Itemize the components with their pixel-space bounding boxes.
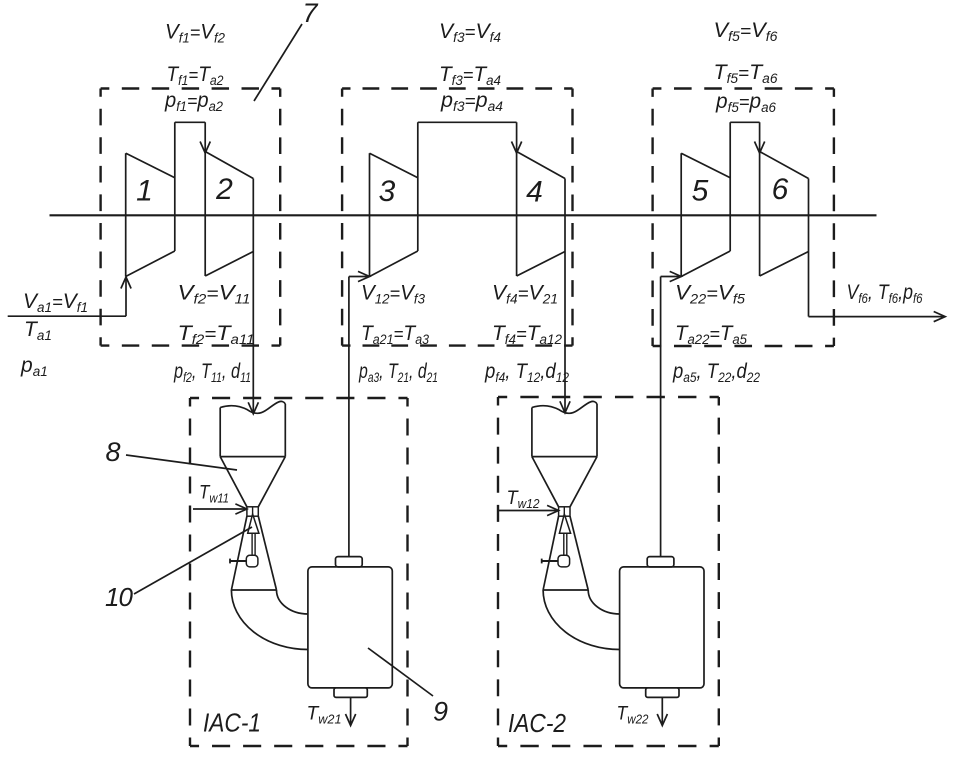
svg-text:Vf6​, Tf6​,pf6​: Vf6​, Tf6​,pf6​ <box>847 281 923 306</box>
svg-text:IAC-1: IAC-1 <box>203 708 261 738</box>
svg-text:4: 4 <box>526 176 543 209</box>
svg-text:1: 1 <box>136 175 153 208</box>
svg-text:IAC-2: IAC-2 <box>508 708 566 738</box>
svg-text:7: 7 <box>302 0 318 28</box>
svg-text:2: 2 <box>215 173 233 206</box>
svg-text:8: 8 <box>105 437 120 467</box>
svg-text:5: 5 <box>692 175 709 208</box>
svg-text:3: 3 <box>379 175 396 208</box>
svg-text:10: 10 <box>105 582 133 612</box>
svg-text:6: 6 <box>772 173 789 206</box>
svg-text:9: 9 <box>433 697 448 727</box>
